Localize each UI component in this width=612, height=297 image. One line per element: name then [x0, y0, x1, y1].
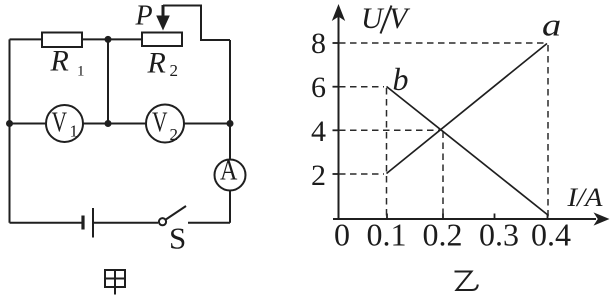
line b: [387, 87, 549, 216]
wire bottom left to battery: [10, 222, 82, 224]
wire right branch upper: [229, 40, 231, 160]
dashed I=0.1: [386, 88, 388, 218]
wire slider P to right branch: [163, 6, 230, 41]
svg-text:A: A: [220, 155, 238, 186]
x tick 0.1: [386, 214, 388, 220]
svg-text:V: V: [389, 2, 411, 35]
x axis I: [333, 218, 596, 220]
x tick 0.2: [442, 214, 444, 220]
svg-text:V: V: [152, 105, 168, 138]
svg-text:0.4: 0.4: [531, 217, 571, 253]
svg-text:2: 2: [170, 61, 179, 80]
dashed U=8: [339, 42, 546, 44]
switch lever: [166, 206, 186, 220]
svg-text:S: S: [169, 221, 186, 256]
wire right branch lower: [229, 191, 231, 223]
dashed I=0.2: [442, 132, 444, 219]
x axis arrowhead: [594, 212, 610, 225]
svg-text:0.2: 0.2: [423, 217, 463, 253]
svg-text:b: b: [393, 61, 409, 97]
svg-text:R: R: [50, 44, 69, 77]
node junction dot left: [6, 120, 13, 127]
svg-text:1: 1: [70, 122, 79, 141]
wire left branch: [9, 39, 11, 222]
slider arrow P shaft: [162, 5, 165, 16]
node junction dot right: [227, 120, 234, 127]
dashed U=6: [339, 86, 384, 88]
wire V2 right: [184, 123, 230, 125]
svg-text:2: 2: [170, 125, 179, 144]
svg-text:0.1: 0.1: [367, 217, 407, 253]
node junction dot middle: [105, 120, 112, 127]
svg-text:P: P: [135, 0, 153, 31]
wire middle branch: [107, 39, 109, 123]
svg-text:1: 1: [77, 64, 85, 80]
wire switch to right branch: [188, 222, 230, 224]
resistor R1: [42, 33, 82, 48]
dashed I=0.4: [547, 45, 549, 218]
svg-text:4: 4: [311, 115, 326, 148]
svg-text:0.3: 0.3: [479, 217, 519, 253]
resistor R2 (rheostat): [142, 33, 182, 47]
x tick 0.4: [547, 214, 549, 220]
switch pivot circle: [159, 218, 166, 225]
svg-text:R: R: [147, 46, 166, 79]
x tick 0.3: [494, 214, 496, 220]
y tick 6: [333, 86, 339, 88]
svg-text:6: 6: [311, 71, 326, 104]
battery negative plate: [81, 216, 84, 230]
voltmeter V2: [146, 105, 184, 143]
battery positive plate: [92, 208, 94, 238]
dashed U=4: [339, 129, 440, 131]
wire V1 left: [10, 123, 47, 125]
y tick 4: [333, 129, 339, 131]
slider arrow P head: [156, 16, 170, 31]
label yi (乙): [455, 272, 478, 291]
wire R1 to R2: [82, 38, 142, 40]
y axis arrowhead: [332, 4, 345, 21]
svg-text:V: V: [52, 105, 68, 138]
wire battery to switch: [94, 222, 158, 224]
voltmeter V1: [46, 105, 83, 142]
node junction dot top middle: [105, 36, 112, 43]
svg-text:2: 2: [311, 159, 326, 192]
y axis U: [338, 14, 340, 219]
svg-text:I/A: I/A: [566, 183, 602, 212]
ammeter A: [215, 160, 246, 191]
wire V1 to V2: [83, 123, 146, 125]
label jia (甲): [105, 270, 125, 295]
dashed U=2: [339, 173, 384, 175]
y tick 8: [333, 42, 339, 44]
line a: [387, 44, 548, 174]
wire top row left: [10, 38, 43, 40]
svg-text:0: 0: [334, 217, 350, 253]
svg-text:8: 8: [311, 27, 326, 60]
svg-text:a: a: [542, 7, 561, 42]
y tick 2: [333, 173, 339, 175]
